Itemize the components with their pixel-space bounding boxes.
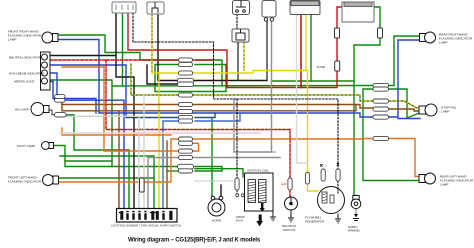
wire green pilot lamp [54, 146, 180, 167]
connector headlamp upper pair [55, 95, 66, 99]
wire orange turn switch [104, 67, 179, 151]
svg-text:Wiring diagram – CG125(BR)-E/F: Wiring diagram – CG125(BR)-E/F, J and K … [128, 238, 261, 244]
wire white bus [60, 132, 260, 134]
wire yellow handlebar to connectors [152, 14, 179, 73]
connector vertical generator black [336, 169, 340, 181]
wire light-green-dash brake bus [131, 64, 179, 95]
lamp front left-hand flashing indicator [43, 175, 59, 186]
wire black-dotted generator [337, 181, 339, 188]
ignition switch connector box [112, 2, 136, 13]
lamp rear right-hand flashing indicator [420, 32, 436, 43]
wire black connector loop [193, 80, 267, 82]
flasher relay box [232, 29, 249, 42]
lamp rear left-hand flashing indicator [419, 173, 436, 184]
ignition coil [245, 173, 274, 211]
wire blue front-right indicator to bus [58, 40, 373, 118]
fuse battery negative [378, 28, 383, 38]
wire yellow lighting switch [305, 15, 307, 71]
ground ignition coil [270, 152, 276, 221]
ground neutral switch [288, 210, 294, 222]
svg-text:NEUTRAL INDICATOR: NEUTRAL INDICATOR [9, 56, 42, 60]
crossing marks generator leads [320, 163, 339, 166]
connector headlamp lower [55, 113, 67, 117]
wire blue high-beam bulb [48, 72, 50, 74]
lamp front right-hand flashing indicator [42, 32, 58, 43]
horn [208, 196, 225, 216]
svg-text:LIGHTING DIMMER TURN SIGNAL: LIGHTING DIMMER TURN SIGNAL HORN SWITCH [111, 224, 181, 228]
wire orange bus to rear-left [193, 138, 373, 141]
wire brown bundle right [166, 141, 168, 209]
connector column right [373, 83, 389, 140]
wire green regulator [310, 15, 312, 81]
wire brown connector to switch [62, 105, 179, 111]
flywheel generator [318, 187, 345, 214]
wire red battery feed [300, 15, 302, 88]
wire brown tail bus [62, 105, 373, 109]
wire green front-right indicator to ignition switch [58, 35, 123, 53]
wire green meter light feed [50, 80, 112, 167]
wire green battery earth [374, 7, 380, 28]
wire headlamp to connector [49, 110, 55, 115]
wire black handlebar switch [158, 14, 179, 81]
svg-text:HD LAMP: HD LAMP [15, 108, 29, 112]
svg-text:HIGH BEAM INDICATOR: HIGH BEAM INDICATOR [9, 72, 45, 76]
wire green horn feed [211, 118, 213, 196]
wire orange front-left indicator [58, 139, 179, 182]
wire orange short bus [62, 128, 171, 135]
wire red main feed [128, 13, 227, 88]
wire red-dashed neutral switch run [106, 60, 290, 178]
svg-text:SPARK: SPARK [236, 215, 245, 219]
wire green nested L2 [65, 160, 112, 162]
battery [342, 2, 374, 22]
svg-text:(FRAME): (FRAME) [348, 229, 360, 233]
svg-text:LAMP: LAMP [441, 110, 449, 114]
wire green lower connector loop [195, 167, 222, 172]
svg-text:SWITCH: SWITCH [283, 228, 295, 232]
terminal rings ignition coil [236, 194, 239, 197]
fuse battery positive [335, 28, 340, 38]
wire green rear-left indicator [363, 89, 420, 181]
svg-text:FLASHING INDICATOR: FLASHING INDICATOR [8, 180, 42, 184]
wire brown tail lamp [389, 109, 420, 111]
wire light blue connector to switch [163, 121, 179, 209]
connector vertical generator yellow [305, 173, 309, 185]
svg-text:IGNITION COIL: IGNITION COIL [247, 169, 269, 173]
svg-text:FUSE: FUSE [317, 65, 325, 69]
wire green main bus y86 [112, 85, 373, 88]
wire red-dashed neutral indicator [50, 59, 213, 61]
svg-text:PLUG: PLUG [236, 219, 243, 223]
handlebar switch connector box [147, 2, 164, 14]
connector vertical neutral [288, 178, 292, 190]
neutral switch [285, 197, 298, 210]
wire green nested L1 [60, 156, 154, 209]
svg-text:Lg/R: Lg/R [281, 182, 287, 186]
wire green rear-right indicator [389, 36, 420, 86]
wire yellow generator [307, 71, 309, 173]
ground earth frame [353, 209, 359, 221]
wire white bundle [66, 116, 139, 209]
svg-text:PILOT LAMP: PILOT LAMP [17, 144, 35, 148]
dimmer resistor component [140, 178, 145, 192]
lamp pilot [42, 142, 54, 150]
wire gray brake switch loop [234, 20, 272, 152]
wire black-dotted brake switch [236, 14, 238, 29]
front brake light switch box [233, 1, 250, 15]
wire green connector loop right [195, 60, 222, 86]
wire gray coil lead [194, 180, 233, 182]
svg-text:METER LIGHT: METER LIGHT [14, 80, 35, 84]
svg-text:GENERATOR: GENERATOR [305, 220, 325, 224]
rear brake switch box [262, 1, 276, 22]
wire white regulator [297, 15, 307, 163]
wire green connector loop left [155, 64, 179, 66]
svg-text:LAMP: LAMP [439, 41, 447, 45]
spark plug arrows [256, 203, 265, 227]
ground flywheel generator [335, 214, 341, 224]
wire black-dotted main switch run [133, 13, 338, 169]
lamp stop/tail [419, 104, 437, 116]
switch contact table [117, 209, 178, 223]
svg-text:LAMP: LAMP [8, 38, 16, 42]
connector vertical generator second [321, 169, 325, 181]
wire green loop upper connectors [123, 53, 180, 61]
indicator cluster box [41, 52, 51, 90]
svg-text:HORN: HORN [212, 219, 221, 223]
svg-text:LAMP: LAMP [440, 183, 448, 187]
lamp headlamp [31, 103, 49, 116]
wire blue turn indicator bulb [50, 65, 179, 118]
wire green headlamp connector run [66, 115, 129, 209]
wire yellow bundle [158, 73, 160, 209]
wire blue headlamp dimmer [65, 100, 124, 209]
wire yellow bus [193, 71, 308, 74]
connector vertical ignition coil [235, 178, 239, 190]
fuse main [335, 61, 340, 71]
wire black neutral bulb [50, 55, 116, 57]
wire black-dotted ignition coil [236, 99, 238, 178]
earth frame bolt [351, 196, 361, 209]
lighting switch connector box [290, 1, 320, 15]
wire yellow flasher relay [243, 42, 245, 71]
wire gray dimmer [148, 158, 179, 210]
wire black horn [220, 185, 222, 196]
wire blue rear-right indicator [389, 40, 420, 117]
connector column middle [178, 58, 194, 173]
